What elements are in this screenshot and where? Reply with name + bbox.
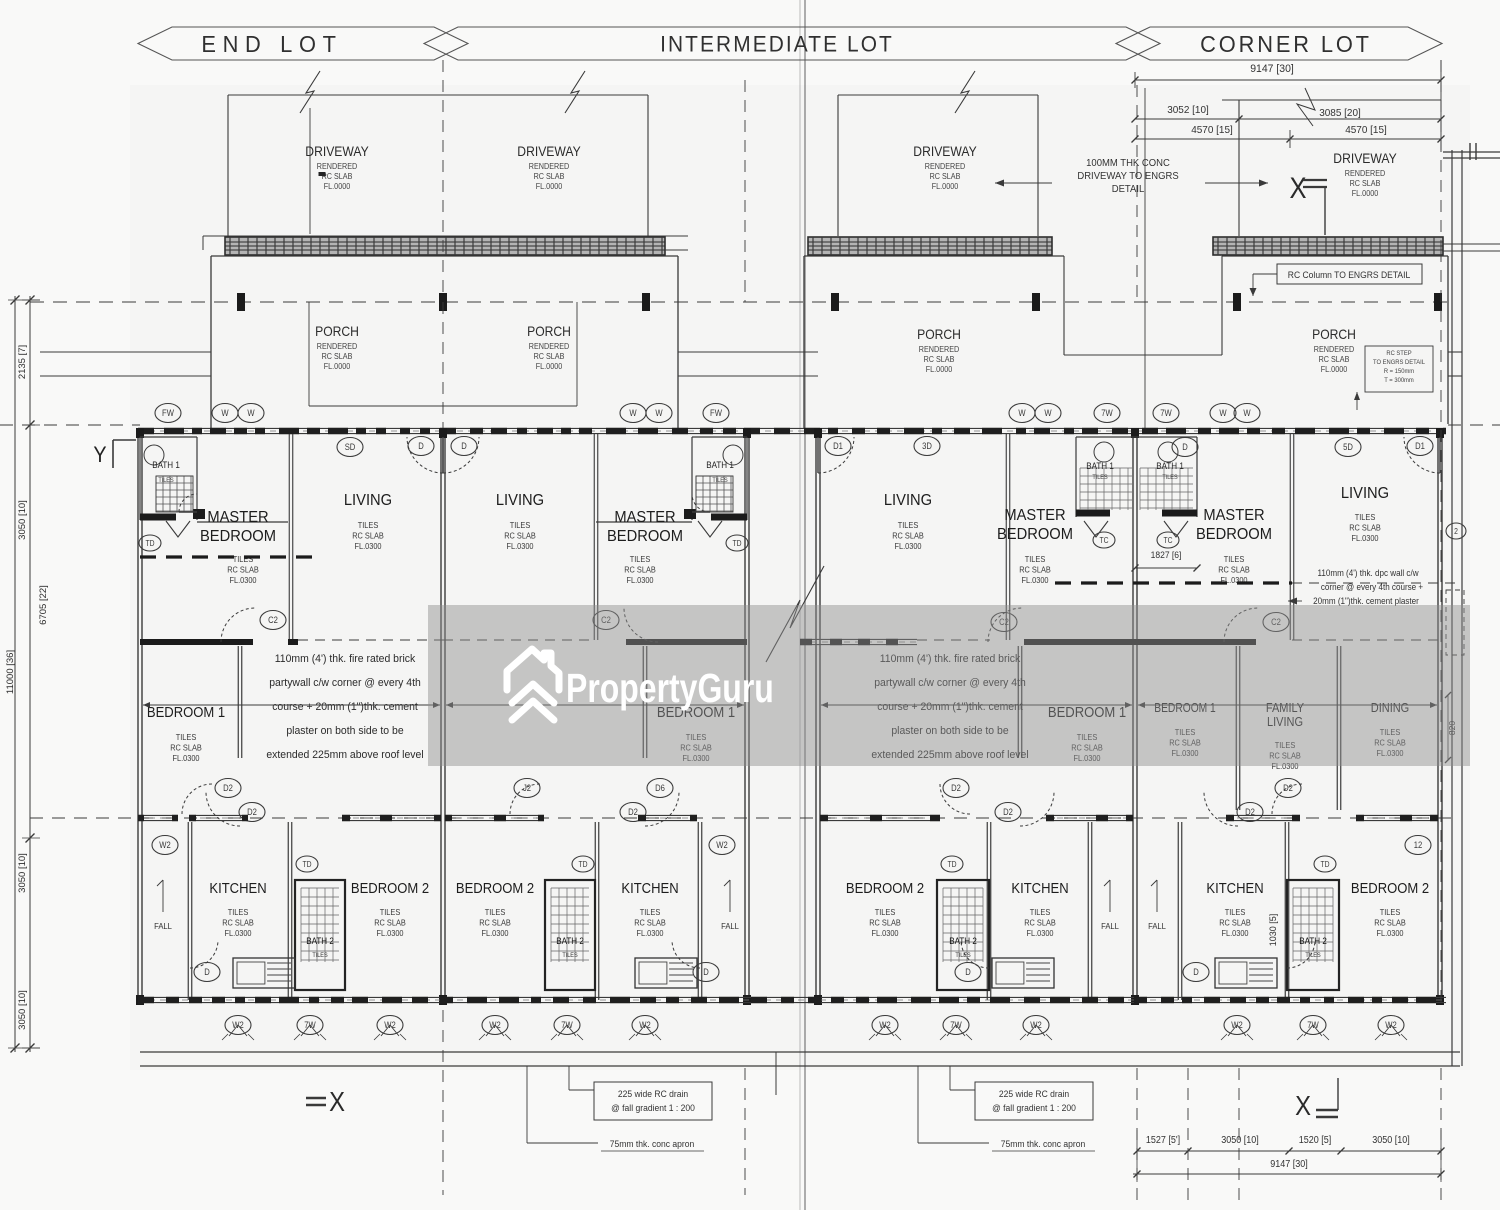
svg-text:PropertyGuru: PropertyGuru [566,665,774,711]
